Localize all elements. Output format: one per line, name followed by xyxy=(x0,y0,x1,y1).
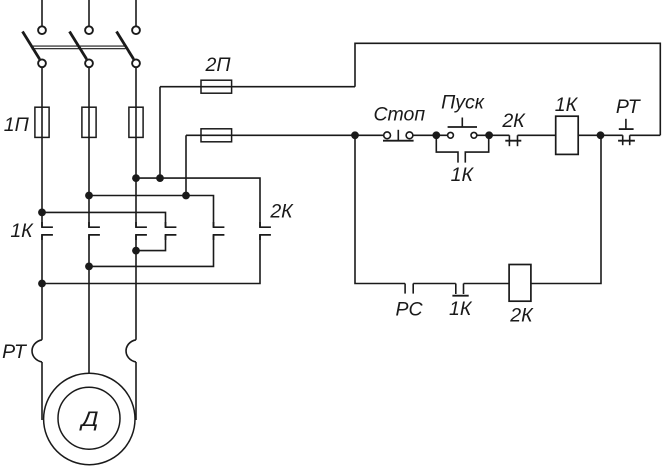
wire phase 1 xyxy=(41,68,43,228)
svg-text:2К: 2К xyxy=(509,305,534,327)
wire 1K contact to 2K coil xyxy=(464,283,510,285)
wire 2K pole2 output crossover xyxy=(89,235,214,267)
wire motor line 2 xyxy=(88,235,90,374)
svg-text:1К: 1К xyxy=(449,298,473,320)
node motor line2 junction xyxy=(85,263,93,271)
svg-text:1К: 1К xyxy=(451,164,475,186)
button Пуск NO xyxy=(448,118,477,139)
node 2П tap xyxy=(156,174,164,182)
wire Пуск to 2K contact xyxy=(477,134,510,136)
svg-text:РТ: РТ xyxy=(2,341,28,363)
switch blade pole 3 xyxy=(117,32,134,60)
wire L2 supply lead xyxy=(88,0,90,26)
wire 2K pole1 output crossover xyxy=(136,235,166,251)
wire Стоп to Пуск xyxy=(413,134,448,136)
wire РС to 1K contact xyxy=(413,283,456,285)
wire phase 3 xyxy=(135,68,137,228)
contactor 1K main contact pole1 xyxy=(42,222,53,240)
fuse F1b 1П xyxy=(82,107,96,137)
switch blade pole 2 xyxy=(70,32,87,60)
wire 2П tap riser xyxy=(159,87,161,178)
svg-text:1К: 1К xyxy=(555,94,579,116)
node L3 upper terminal xyxy=(132,26,140,34)
svg-text:Пуск: Пуск xyxy=(441,92,485,114)
button Стоп NC xyxy=(383,130,414,141)
contact 1K NC bottom xyxy=(452,284,468,296)
wire motor line 3 lower xyxy=(135,362,137,420)
wire phase1 to 2K pole1 xyxy=(42,212,166,227)
contactor 2K main contact pole2 xyxy=(214,222,225,240)
node control fuse tap xyxy=(182,192,190,200)
switch linkage bar xyxy=(32,46,126,49)
node L2 lower terminal xyxy=(85,59,93,67)
wire phase 2 xyxy=(88,68,90,228)
node motor line1 junction xyxy=(38,280,46,288)
node L1 lower terminal xyxy=(38,59,46,67)
contactor 2K main contact pole1 xyxy=(166,222,177,240)
svg-text:1К: 1К xyxy=(10,220,34,242)
wire control feeder xyxy=(186,134,384,136)
node phase1 branch xyxy=(38,209,46,217)
node Пуск right xyxy=(485,131,493,139)
svg-text:1П: 1П xyxy=(4,114,30,136)
node L2 upper terminal xyxy=(85,26,93,34)
node coil output xyxy=(597,131,605,139)
node L1 upper terminal xyxy=(38,26,46,34)
wire 2П feeder xyxy=(160,86,355,88)
wire top loop xyxy=(355,43,660,135)
contact 2K NC interlock xyxy=(505,135,521,146)
thermal element RT phase3 xyxy=(126,340,136,362)
node phase3 branch xyxy=(132,174,140,182)
svg-text:Стоп: Стоп xyxy=(373,104,425,126)
wire coil to РТ contact xyxy=(578,134,623,136)
coil 1K xyxy=(556,116,579,154)
fuse F1c 1П xyxy=(129,107,143,137)
svg-text:2К: 2К xyxy=(269,201,294,223)
node motor line3 junction xyxy=(132,247,140,255)
coil 2K xyxy=(509,265,531,302)
wire motor line 3 xyxy=(135,235,137,340)
svg-text:2К: 2К xyxy=(501,110,526,132)
fuse 2П xyxy=(201,80,232,93)
wire bottom loop right xyxy=(531,135,601,283)
svg-text:РС: РС xyxy=(395,298,423,320)
wire L3 supply lead xyxy=(135,0,137,26)
node control left xyxy=(351,131,359,139)
thermal element RT phase1 xyxy=(32,340,42,362)
wire L1 supply lead xyxy=(41,0,43,26)
node L3 lower terminal xyxy=(132,59,140,67)
motor Д outer xyxy=(44,373,135,464)
motor Д inner xyxy=(58,387,120,449)
contactor 2K main contact pole3 xyxy=(260,222,271,240)
svg-text:Д: Д xyxy=(79,408,99,431)
fuse control lower xyxy=(201,129,232,142)
wire 2K contact to coil xyxy=(518,134,556,136)
wire phase3 to 2K pole3 xyxy=(136,178,260,227)
node Пуск left xyxy=(432,131,440,139)
contact РС xyxy=(405,284,413,294)
wire bottom loop left xyxy=(355,135,405,283)
wire motor line 1 lower xyxy=(41,362,43,420)
node phase2 branch xyxy=(85,192,93,200)
switch blade pole 1 xyxy=(23,32,40,60)
wire РТ to right riser xyxy=(630,134,661,136)
wire phase2 to 2K pole2 xyxy=(89,196,214,228)
svg-text:РТ: РТ xyxy=(616,96,642,118)
wire 2K pole3 output crossover xyxy=(42,235,260,284)
svg-text:2П: 2П xyxy=(205,54,232,76)
contact РТ thermal NC xyxy=(618,119,635,145)
wire control tap riser xyxy=(185,135,187,195)
fuse F1a 1П xyxy=(35,107,49,137)
contact 1K auxiliary holding xyxy=(436,135,488,162)
wire motor line 1 xyxy=(41,235,43,340)
contactor 1K main contact pole2 xyxy=(89,222,100,240)
contactor 1K main contact pole3 xyxy=(136,222,147,240)
